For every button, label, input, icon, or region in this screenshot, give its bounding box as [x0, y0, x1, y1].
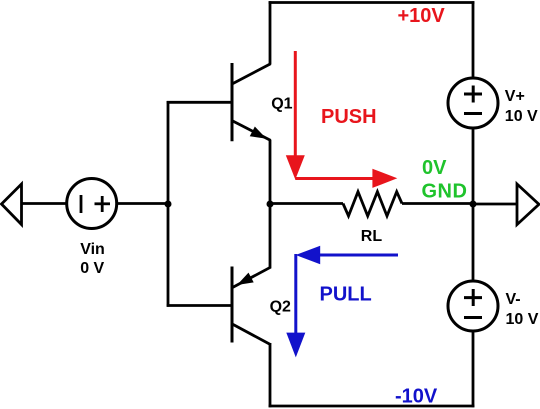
wire Q2 collector to bottom rail: [269, 343, 272, 407]
svg-text:Q1: Q1: [271, 96, 292, 113]
label V+ 10 V: [505, 88, 538, 125]
output port triangle: [517, 184, 539, 225]
svg-text:Vin: Vin: [80, 241, 105, 258]
wire Q1 base: [167, 101, 231, 104]
wire V+ to top rail: [472, 1, 475, 79]
node output junction left dot: [267, 201, 274, 208]
wire Q2 emitter to output node: [269, 204, 272, 268]
wire input port to Vin: [22, 202, 68, 205]
svg-text:10 V: 10 V: [506, 311, 539, 328]
input port triangle: [2, 184, 22, 225]
blue pull current arrow left: [296, 246, 398, 265]
label Vin 0 V: [80, 241, 105, 277]
wire resistor to output node: [402, 202, 473, 205]
wire base bus vertical: [167, 101, 170, 307]
svg-text:Q2: Q2: [270, 299, 291, 316]
svg-text:PUSH: PUSH: [321, 106, 377, 128]
transistor Q1 NPN: [232, 63, 271, 141]
svg-text:10 V: 10 V: [505, 108, 538, 125]
resistor RL: [343, 192, 402, 216]
label V- 10 V: [506, 291, 539, 328]
wire V- to bottom rail: [472, 331, 475, 407]
wire Q1 collector to top rail: [269, 1, 272, 64]
wire output node to V-: [472, 204, 475, 282]
svg-text:RL: RL: [361, 228, 383, 245]
node output junction right dot: [470, 201, 477, 208]
node input junction dot: [165, 201, 172, 208]
wire Q2 base: [167, 304, 231, 307]
wire Vin to input node: [117, 202, 169, 205]
svg-text:PULL: PULL: [320, 284, 372, 306]
red push current arrow down: [286, 51, 305, 180]
svg-text:V+: V+: [505, 88, 525, 105]
svg-text:GND: GND: [422, 181, 468, 203]
svg-text:+10V: +10V: [398, 5, 446, 27]
wire bottom -10V rail: [269, 405, 475, 408]
transistor Q2 PNP: [232, 267, 271, 345]
wire output node to port: [473, 203, 517, 206]
red push current arrow right: [295, 169, 397, 188]
wire top +10V rail: [269, 1, 475, 4]
voltage source V+: [448, 78, 498, 128]
wire output node to resistor: [270, 202, 343, 205]
svg-text:-10V: -10V: [395, 386, 438, 408]
svg-text:V-: V-: [506, 291, 521, 308]
voltage source V-: [448, 281, 498, 331]
voltage source Vin: [67, 179, 117, 229]
svg-text:0V: 0V: [422, 157, 447, 179]
wire Q1 emitter to output node: [269, 140, 272, 204]
blue pull current arrow down: [286, 254, 305, 357]
wire V+ to output node: [472, 128, 475, 205]
svg-text:0 V: 0 V: [80, 260, 104, 277]
